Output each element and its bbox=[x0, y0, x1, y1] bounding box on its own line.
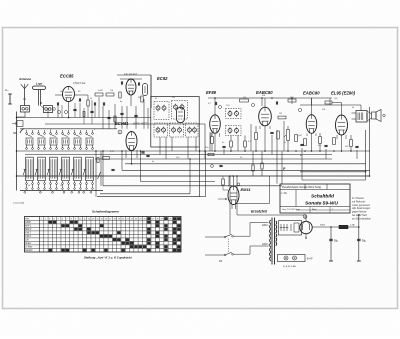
switch diagram table bbox=[24, 217, 181, 253]
tube V9 EM80 bbox=[228, 186, 239, 204]
svg-text:Aus: Aus bbox=[24, 218, 30, 221]
EF89 droppers bbox=[211, 132, 247, 151]
tube V1 ECC85 triode a bbox=[63, 86, 75, 101]
svg-text:0,1: 0,1 bbox=[208, 103, 211, 105]
svg-text:MW 2: MW 2 bbox=[25, 229, 32, 231]
V7 components bbox=[298, 98, 327, 151]
IF box group bbox=[151, 97, 199, 148]
svg-text:Schaltbild: Schaltbild bbox=[311, 194, 335, 200]
wire droppers IF bbox=[160, 121, 357, 159]
circled 2 bbox=[118, 130, 122, 134]
svg-text:300V: 300V bbox=[320, 225, 326, 227]
AM input coupling bbox=[12, 121, 23, 127]
EL95 droppers bbox=[333, 135, 359, 151]
wire vert x103 bbox=[102, 151, 104, 186]
osc coil L2 bbox=[143, 84, 148, 96]
mains switch K1 bbox=[205, 234, 233, 263]
value labels bbox=[28, 90, 355, 187]
switch column S4 bbox=[62, 130, 70, 189]
wire y172 right bbox=[300, 171, 366, 173]
heater drop wires bbox=[211, 126, 346, 139]
speaker connector X1 bbox=[40, 106, 52, 113]
wire vert x190 bbox=[189, 159, 191, 194]
svg-text:50µ: 50µ bbox=[362, 240, 367, 243]
svg-text:0,1A: 0,1A bbox=[350, 224, 355, 227]
svg-text:EC92: EC92 bbox=[157, 76, 168, 81]
svg-text:Sonate 59-WU: Sonate 59-WU bbox=[305, 201, 338, 207]
circled 1 bbox=[237, 183, 240, 186]
svg-text:220V~: 220V~ bbox=[262, 243, 270, 246]
bandfilter BF2 bbox=[172, 101, 188, 120]
fuse strip bbox=[278, 255, 314, 262]
bandfilter BF4 bbox=[170, 123, 184, 137]
wire vert x140 bbox=[140, 151, 142, 182]
wire vert x122 bbox=[121, 151, 123, 170]
tube V8 EL95 bbox=[336, 115, 348, 135]
svg-text:Ersatzteil: Ersatzteil bbox=[251, 210, 268, 214]
svg-text:220V~: 220V~ bbox=[262, 224, 270, 227]
svg-text:KW 1: KW 1 bbox=[25, 233, 31, 235]
svg-text:B 4 F: B 4 F bbox=[307, 258, 313, 261]
svg-text:J.-Nr.: J.-Nr. bbox=[281, 191, 287, 195]
UKW box bbox=[117, 75, 151, 108]
bandfilter BF6 bbox=[226, 109, 242, 119]
svg-text:EL95 (EZ80): EL95 (EZ80) bbox=[331, 91, 356, 96]
wire bus y164 bbox=[125, 163, 366, 165]
bandfilter BF1 bbox=[154, 102, 169, 120]
wire bus y154 bbox=[25, 154, 332, 156]
wire bus y194 bbox=[100, 193, 190, 195]
top components row bbox=[215, 98, 296, 115]
switch column S3 bbox=[50, 130, 58, 189]
svg-text:1xh 2xh 4x1: 1xh 2xh 4x1 bbox=[124, 73, 138, 76]
voltage selector plate bbox=[279, 221, 302, 236]
svg-text:0,1: 0,1 bbox=[248, 141, 251, 143]
wire top rail drops bbox=[265, 98, 342, 107]
svg-text:Lspr: Lspr bbox=[36, 82, 43, 86]
svg-text:2M: 2M bbox=[171, 97, 175, 99]
wire transformer down bbox=[230, 176, 306, 234]
wire vert right x365 bbox=[365, 130, 367, 172]
svg-text:K2: K2 bbox=[219, 259, 223, 263]
switch column S2 bbox=[38, 130, 46, 189]
wire y180 bbox=[302, 179, 366, 181]
B+ wire bbox=[312, 225, 359, 228]
wire vert x282 bbox=[281, 151, 283, 184]
svg-text:6,3V: 6,3V bbox=[110, 151, 115, 153]
svg-text:Rundfunkwerk Sonate Werk Sut: Rundfunkwerk Sonate Werk Suttg bbox=[282, 185, 322, 189]
svg-text:Schalterdiagramm: Schalterdiagramm bbox=[92, 210, 119, 214]
svg-text:EABC80: EABC80 bbox=[303, 91, 320, 96]
switch column S5 bbox=[74, 130, 82, 189]
wire bus y186 bbox=[103, 185, 282, 187]
loudspeaker LS1 bbox=[33, 86, 46, 106]
svg-text:Gleichr.: Gleichr. bbox=[25, 250, 33, 252]
svg-text:Gez. 12.3.58 Gepr.: Gez. 12.3.58 Gepr. bbox=[282, 208, 301, 211]
antenna A1 bbox=[21, 84, 28, 106]
wire vert x277 bbox=[276, 130, 278, 184]
svg-text:EM11: EM11 bbox=[241, 187, 252, 192]
tube V4 ECH81 bbox=[126, 132, 137, 151]
svg-text:EF89: EF89 bbox=[206, 90, 217, 95]
wire y117 bbox=[17, 117, 152, 119]
wire vert x199 bbox=[199, 147, 201, 197]
wire B+ out rail bbox=[300, 105, 370, 121]
svg-text:U-Klav: U-Klav bbox=[25, 247, 33, 249]
svg-text:MW 1: MW 1 bbox=[25, 226, 32, 228]
bandfilter BF5 bbox=[186, 123, 199, 137]
svg-text:U~: U~ bbox=[5, 88, 9, 92]
svg-text:Blatt: Blatt bbox=[312, 208, 317, 211]
wire y196 ext bbox=[200, 196, 206, 198]
wire vert x205 bbox=[204, 124, 206, 151]
svg-text:2x 6,3V 0,9A: 2x 6,3V 0,9A bbox=[283, 265, 296, 268]
svg-text:3,5x0,5 4x2: 3,5x0,5 4x2 bbox=[73, 82, 86, 85]
svg-text:A: A bbox=[304, 215, 306, 219]
wire left bus bbox=[16, 112, 18, 191]
tube V3 EC92 bbox=[177, 108, 185, 123]
svg-text:am Stromlaufplan: am Stromlaufplan bbox=[352, 217, 371, 220]
wire bus y151 bbox=[103, 150, 370, 152]
svg-text:60RD, 80CT: 60RD, 80CT bbox=[133, 122, 148, 126]
EL95 top fuse bbox=[325, 101, 342, 115]
antenna socket bbox=[21, 106, 30, 113]
wire bus y159 bbox=[95, 158, 332, 160]
EM80 wires bbox=[218, 176, 270, 209]
wire vert x302 bbox=[301, 159, 303, 180]
B+ rail top bbox=[208, 97, 332, 99]
bandfilter BF3 bbox=[154, 123, 168, 137]
osc trimmer bbox=[119, 79, 143, 106]
notes text bbox=[351, 197, 371, 220]
svg-text:50µ: 50µ bbox=[334, 240, 339, 243]
switch bank bracket bbox=[20, 129, 24, 134]
switch bank mid rail bbox=[17, 150, 104, 152]
mid band components bbox=[97, 151, 263, 176]
electrolytic C50a bbox=[329, 227, 339, 261]
electrolytic C50b bbox=[357, 215, 367, 261]
output transformer T2 bbox=[352, 111, 368, 123]
tube V5 EF89 bbox=[210, 115, 221, 133]
switch column S6 bbox=[86, 130, 94, 189]
wire x365 ext bbox=[365, 172, 367, 180]
tube V2 ECC85 triode b bbox=[126, 79, 136, 95]
bandfilter BF7 bbox=[226, 126, 242, 136]
wire droppers tuner bbox=[103, 99, 148, 129]
wire bus y170 bbox=[122, 169, 370, 171]
mains transformer T1 bbox=[234, 218, 277, 265]
wire y181 bbox=[141, 181, 216, 183]
wire vert right x369 bbox=[369, 121, 371, 177]
svg-text:Antenne: Antenne bbox=[18, 77, 31, 81]
tube V7 EABC80 af bbox=[306, 115, 317, 134]
speaker LS2 bbox=[367, 110, 385, 122]
svg-text:Gram: Gram bbox=[25, 243, 31, 245]
circled A bbox=[303, 215, 307, 219]
svg-text:0,5M: 0,5M bbox=[297, 135, 302, 137]
wire vert x205b bbox=[205, 151, 207, 197]
switch lever arrows bbox=[23, 151, 101, 186]
wire speaker down bbox=[369, 121, 371, 123]
wire vert x96 bbox=[95, 151, 97, 197]
svg-text:ECC85: ECC85 bbox=[60, 74, 74, 79]
wire antenna feed bbox=[17, 112, 26, 118]
svg-text:UKW: UKW bbox=[25, 222, 31, 224]
svg-text:0,5M: 0,5M bbox=[98, 90, 103, 92]
band switch assembly bbox=[20, 128, 117, 130]
svg-text:1M: 1M bbox=[279, 113, 282, 115]
tube V6 EABC80 bbox=[259, 107, 272, 126]
wire y124 bbox=[45, 123, 205, 125]
wire bus y197 bbox=[97, 196, 200, 198]
EABC80 components bbox=[255, 126, 304, 151]
dial lamp U1 bbox=[5, 88, 12, 104]
switch bank bottom rail bbox=[20, 191, 103, 194]
filter choke Dr1 bbox=[339, 224, 355, 229]
svg-text:Stellung „Aus“ K 1 u. K 2 gedr: Stellung „Aus“ K 1 u. K 2 gedrückt bbox=[84, 256, 133, 260]
title block bbox=[280, 184, 350, 213]
tuner components bbox=[48, 93, 114, 124]
svg-text:KW 2: KW 2 bbox=[25, 236, 31, 238]
svg-text:NF: NF bbox=[13, 131, 17, 135]
resistor R20 bbox=[278, 116, 286, 119]
ECH81 wires bbox=[126, 150, 137, 164]
svg-text:a Umschaltk.: a Umschaltk. bbox=[13, 202, 25, 205]
wire bus y176 bbox=[17, 175, 370, 177]
switch column S1 bbox=[26, 130, 34, 189]
rectifier tube V10 EZ80 bbox=[300, 221, 312, 238]
